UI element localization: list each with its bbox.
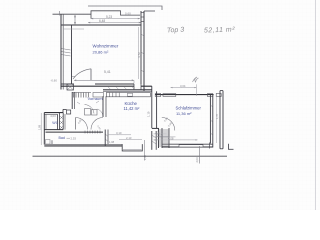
scan edge right <box>315 0 317 210</box>
svg-text:52,11 m²: 52,11 m² <box>204 26 235 34</box>
bad door arc <box>76 118 88 130</box>
svg-text:4,72: 4,72 <box>137 52 141 58</box>
schlafzimmer top wall <box>155 94 214 96</box>
kueche left wall <box>102 96 104 117</box>
svg-text:2,13: 2,13 <box>126 136 132 140</box>
svg-text:WC: WC <box>52 121 58 125</box>
svg-text:1,88: 1,88 <box>37 124 41 130</box>
schlafzimmer right wall <box>209 95 211 144</box>
hatch in wall band <box>108 87 111 90</box>
svg-text:6,48: 6,48 <box>99 19 105 23</box>
svg-text:2,13: 2,13 <box>157 133 163 137</box>
svg-text:Bad: Bad <box>59 136 65 140</box>
right inner dim <box>216 96 218 143</box>
wohnzimmer door leaf + arc <box>90 69 92 81</box>
svg-text:20,86 m²: 20,86 m² <box>93 50 109 55</box>
tick at left end <box>59 11 61 16</box>
svg-text:4,03: 4,03 <box>50 114 56 118</box>
dim 5,41 <box>74 79 134 81</box>
kueche bay window <box>122 144 142 151</box>
bottom window <box>179 145 203 147</box>
dim line 5,23 <box>91 18 140 20</box>
right wall upper section <box>140 11 142 84</box>
window dim 3,04 <box>171 87 197 89</box>
vertical dim 4,72 <box>138 27 140 79</box>
wc/shaft walls <box>57 114 59 129</box>
svg-text:0,60: 0,60 <box>125 11 131 15</box>
svg-text:1,19: 1,19 <box>147 111 151 117</box>
washer box <box>93 93 104 98</box>
hatch ticks left wall <box>63 28 84 30</box>
wall thickness dim arrow <box>74 15 76 24</box>
vertical dim 2,03 crossing <box>198 146 200 164</box>
svg-text:2,03: 2,03 <box>195 157 199 163</box>
schlafzimmer bottom dims <box>154 133 167 135</box>
svg-text:5,23: 5,23 <box>106 15 112 19</box>
dim line 6,48 <box>88 22 141 24</box>
svg-text:3,04: 3,04 <box>180 84 186 88</box>
top wall outer face line <box>53 13 92 15</box>
wc bottom / bad top <box>44 129 63 131</box>
long boundary line bottom <box>33 155 228 157</box>
svg-text:-0,60: -0,60 <box>51 79 58 83</box>
kueche dims <box>108 134 131 136</box>
vorraum comb (built-in) <box>73 92 92 94</box>
schlafzimmer bottom wall <box>162 143 213 145</box>
chimney block vorraum <box>67 84 74 90</box>
svg-text:5,41: 5,41 <box>104 70 111 74</box>
svg-text:3,10: 3,10 <box>116 131 122 135</box>
schlafzimmer door arc <box>162 118 175 131</box>
svg-text:Top 3: Top 3 <box>167 27 185 35</box>
wohnzimmer top wall inner face <box>61 24 142 26</box>
svg-text:Vorraum: Vorraum <box>88 96 104 101</box>
wohnzimmer bottom wall faces <box>61 83 75 85</box>
pencil mark <box>193 77 199 82</box>
left outer dim <box>40 113 42 145</box>
top boundary thin line <box>88 6 162 10</box>
chimney hatched <box>152 127 159 129</box>
svg-text:11,42 m²: 11,42 m² <box>124 106 140 111</box>
left wall inner face <box>71 25 73 84</box>
wall kueche/schlafzimmer upper <box>151 86 153 128</box>
svg-text:4,08: 4,08 <box>168 136 174 140</box>
svg-text:11,36 m²: 11,36 m² <box>176 111 192 116</box>
entry door rects <box>85 109 91 116</box>
kitchen counter <box>106 93 150 97</box>
svg-text:1,98: 1,98 <box>144 155 147 160</box>
svg-text:Schlafzimmer: Schlafzimmer <box>176 105 202 110</box>
kueche door arc from vorraum <box>91 118 103 130</box>
WC block <box>44 112 63 114</box>
svg-text:Wohnzimmer: Wohnzimmer <box>93 43 119 48</box>
vorraum left wall <box>71 92 73 109</box>
right light shaft walls <box>219 91 221 149</box>
left wall outer face <box>60 14 62 89</box>
bay outline top <box>91 11 140 19</box>
svg-text:2,53: 2,53 <box>71 136 77 140</box>
svg-text:1,78: 1,78 <box>216 114 219 119</box>
kueche top wall face <box>103 89 152 91</box>
svg-text:1,08: 1,08 <box>109 140 115 144</box>
